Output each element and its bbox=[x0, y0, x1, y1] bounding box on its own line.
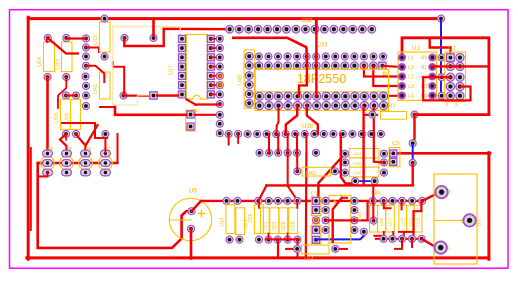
wire E-F link5 bbox=[305, 134, 307, 153]
pad rowB 7 bbox=[312, 62, 320, 70]
wire diag over U41 bbox=[86, 66, 104, 82]
resistor U23 body bbox=[270, 208, 279, 234]
pad U35 left 4 bbox=[322, 226, 329, 233]
pad rowA 5 bbox=[294, 53, 301, 60]
pad U37 pin 6 bbox=[273, 25, 281, 33]
resistor U18 body bbox=[61, 100, 71, 130]
svg-text:U20: U20 bbox=[379, 217, 384, 226]
pad U17 left pin 2 bbox=[179, 45, 186, 52]
svg-text:U23: U23 bbox=[272, 221, 278, 230]
wire H1 to right rail bbox=[432, 65, 489, 67]
pad blue1 bbox=[352, 178, 359, 185]
pad U17 right pin 6 bbox=[207, 82, 214, 89]
pad column x86 bbox=[82, 44, 89, 51]
resistor U20 body bbox=[378, 205, 386, 232]
pad U40 pin2 bbox=[245, 62, 253, 70]
pad U33 top pin 12 bbox=[360, 92, 368, 100]
capacitor C4 body bbox=[311, 225, 321, 243]
pad row201 1 bbox=[223, 197, 230, 204]
resistor U21 body bbox=[261, 208, 270, 234]
pad J3.1 bbox=[435, 241, 447, 253]
wire U17 pin 7 link bbox=[211, 93, 220, 95]
J3 pin3 silk bbox=[434, 219, 462, 221]
pad row240 6 bbox=[284, 236, 291, 243]
wire U17 pin 1 link bbox=[211, 38, 220, 40]
wire U17 pin 6 link bbox=[211, 84, 220, 86]
wire U14.2 down bbox=[46, 77, 49, 154]
pad rowB 3 bbox=[274, 62, 282, 70]
pad U2 right 1 bbox=[456, 54, 464, 62]
LED U27 outline bbox=[99, 156, 113, 170]
pad rowA 6 bbox=[303, 53, 310, 60]
connector U1 body bbox=[398, 52, 437, 100]
pad U30 bottom bbox=[62, 169, 72, 176]
svg-text:U26: U26 bbox=[248, 213, 254, 222]
pad U35 right 3 bbox=[351, 217, 358, 224]
pad U2 pin1 square bbox=[447, 54, 455, 62]
svg-text:U35: U35 bbox=[370, 191, 380, 197]
pad top net bbox=[437, 15, 444, 22]
pad net C3 top bbox=[409, 140, 416, 147]
pad row240 5 bbox=[274, 236, 281, 243]
wire blue lower bbox=[355, 180, 374, 182]
wire trio stub3 bbox=[403, 232, 405, 239]
pad J3.2 bbox=[435, 186, 447, 198]
pad U1 H3 bbox=[429, 83, 436, 90]
wire 18F2550 drop1 bbox=[299, 54, 307, 96]
pad U35 right 1 bbox=[351, 197, 358, 204]
pad bbox=[102, 130, 109, 137]
pad rowA 4 bbox=[284, 53, 291, 60]
pad U17 left pin 1 bbox=[179, 35, 186, 42]
resistor U25 body bbox=[279, 208, 288, 234]
U33 inner silk line bbox=[255, 91, 388, 93]
pad stack right 3 bbox=[380, 169, 387, 176]
wire trio stub1 bbox=[383, 232, 385, 239]
resistor U19 body bbox=[289, 208, 298, 234]
resistor U29 body bbox=[236, 208, 245, 235]
pad U37 pin 14 bbox=[349, 25, 357, 33]
wire res stub a bbox=[258, 201, 260, 208]
pad U17 right pin 7 bbox=[207, 91, 214, 98]
wire U38 funnel left bbox=[286, 106, 297, 134]
pad junction top bbox=[82, 35, 89, 42]
wire drop from top rail bbox=[152, 19, 155, 36]
wire U17 pin 4 link bbox=[211, 66, 220, 68]
wire led stub2 bbox=[104, 146, 106, 154]
pad col x219 c bbox=[216, 130, 223, 137]
pad stack right 2 bbox=[380, 159, 387, 166]
pad U14b.1 bbox=[294, 245, 301, 252]
pad C1.1 bbox=[313, 197, 320, 204]
pad header right 7 bbox=[216, 91, 223, 98]
wire U14b right bbox=[335, 248, 347, 250]
LED U30 outline bbox=[60, 156, 74, 170]
pad row201 6 bbox=[284, 197, 291, 204]
svg-text:U42: U42 bbox=[306, 171, 316, 177]
resistor U41 body bbox=[100, 72, 111, 99]
wire y104 stub bbox=[195, 103, 220, 105]
pad U2 left 3 bbox=[446, 73, 454, 81]
svg-text:U5: U5 bbox=[189, 189, 197, 195]
pad row240 3 bbox=[255, 236, 262, 243]
svg-text:U17: U17 bbox=[169, 65, 175, 75]
pad rowB 10 bbox=[341, 62, 349, 70]
wire bend bbox=[62, 123, 107, 138]
wire row E left to LED bbox=[108, 134, 118, 163]
pad rowE 6 bbox=[273, 130, 280, 137]
U5 chord line bbox=[169, 219, 191, 221]
pad row201 2 bbox=[234, 197, 241, 204]
pad U2 left 5 bbox=[446, 92, 454, 100]
pad bbox=[72, 92, 79, 99]
junction X mark bbox=[313, 217, 320, 224]
pad row201 9 bbox=[369, 197, 376, 204]
wire E-F link3 bbox=[288, 134, 298, 200]
pad header right 2 bbox=[216, 45, 223, 52]
pad rowE 15 bbox=[358, 130, 365, 137]
pad rowE 5 bbox=[263, 130, 270, 137]
pad U2 right 5 bbox=[456, 92, 464, 100]
resistor U14 body bbox=[44, 42, 55, 72]
pad U37 pin 13 bbox=[339, 25, 347, 33]
wire res stub c bbox=[287, 234, 289, 240]
pad row239 4 bbox=[408, 235, 415, 242]
pad stack left 1 bbox=[341, 150, 348, 157]
pad stack left 3 bbox=[341, 169, 348, 176]
svg-text:U23: U23 bbox=[408, 217, 413, 226]
wire E-F link4 bbox=[296, 134, 298, 153]
pad rowE 13 bbox=[339, 130, 346, 137]
connector J3 body bbox=[434, 174, 477, 264]
svg-text:24: 24 bbox=[386, 83, 391, 89]
pad rowB 12 bbox=[360, 62, 368, 70]
wire stub bbox=[38, 162, 48, 164]
wire U42.2 right bbox=[336, 171, 345, 174]
svg-text:L4: L4 bbox=[408, 94, 414, 100]
capacitor U5 outline bbox=[169, 198, 211, 240]
pad C3b bbox=[390, 158, 397, 165]
pad rowB 11 bbox=[351, 62, 359, 70]
wire U38 funnel right bbox=[307, 106, 318, 134]
pad U1 LV bbox=[399, 54, 406, 61]
svg-text:U46: U46 bbox=[353, 161, 362, 166]
wire 18F2550 drop2 bbox=[315, 20, 317, 96]
pad U33 top pin 5 bbox=[294, 92, 302, 100]
wire jog b bbox=[414, 201, 422, 239]
svg-text:C6: C6 bbox=[193, 108, 199, 113]
pad U40 pin6 bbox=[245, 99, 253, 107]
pad row201 4 bbox=[265, 197, 272, 204]
pad U37 pin 3 bbox=[245, 25, 253, 33]
pad R1.2 bbox=[411, 111, 418, 118]
wire LED middle row bus bbox=[39, 162, 118, 164]
pad row240 1 bbox=[226, 236, 233, 243]
wire led feed 2 bbox=[76, 134, 86, 154]
pad rowE 3 bbox=[244, 130, 251, 137]
pad U37 pin 5 bbox=[264, 25, 272, 33]
resistor U44 body bbox=[349, 149, 379, 158]
pad U37 pin 8 bbox=[292, 25, 300, 33]
wire x86 pads link bbox=[86, 47, 99, 49]
wire down from C3 net bbox=[412, 163, 414, 185]
pad U37 pin 2 bbox=[235, 25, 243, 33]
pad between U1 U2 b bbox=[438, 74, 445, 81]
pad U33 top pin 3 bbox=[274, 92, 282, 100]
svg-text:L1: L1 bbox=[408, 65, 414, 71]
pad U27 mid bbox=[101, 160, 111, 167]
wire y235 short bbox=[374, 235, 381, 237]
wire U17 bottom diag bbox=[187, 100, 197, 105]
pad U1 HV bbox=[429, 54, 436, 61]
wire U-frame top bbox=[402, 38, 489, 115]
pad rowB 8 bbox=[322, 62, 330, 70]
pad U14.1 bbox=[44, 34, 51, 41]
pad rowB 5 bbox=[293, 62, 301, 70]
pad U33 top pin 7 bbox=[313, 92, 321, 100]
pad U19.2 bbox=[63, 73, 70, 80]
pad C3a bbox=[390, 150, 397, 157]
wire R1 left bbox=[364, 114, 377, 116]
pad R1.1 bbox=[369, 111, 376, 118]
wire mid row y201 bbox=[201, 200, 422, 202]
wire R1 to loop bbox=[415, 113, 489, 116]
wire U17 pin 3 link bbox=[211, 56, 220, 58]
pad between U1 U2 c bbox=[438, 92, 445, 99]
wire E-F link2b bbox=[277, 134, 279, 153]
resistor U26 body bbox=[255, 205, 264, 234]
resistor U46 body bbox=[349, 158, 379, 167]
pad U2 right 2 bbox=[456, 62, 464, 70]
pad rowF 4 bbox=[284, 149, 291, 156]
resistor U18b body bbox=[226, 205, 235, 234]
pad rowA 13 bbox=[370, 53, 377, 60]
wire U2 bottom loop bbox=[423, 77, 470, 100]
pad U1 L3 bbox=[399, 83, 406, 90]
faint silk outline big box bbox=[113, 27, 181, 106]
svg-text:U19: U19 bbox=[416, 217, 421, 226]
pad rowF 3 bbox=[275, 149, 282, 156]
svg-text:U19: U19 bbox=[56, 59, 62, 69]
pad U37 pin 16 bbox=[368, 25, 376, 33]
pad U1 L4 bbox=[399, 92, 406, 99]
svg-text:U19: U19 bbox=[291, 221, 297, 230]
svg-text:LV: LV bbox=[408, 56, 414, 62]
pad U14.2 bbox=[44, 73, 51, 80]
svg-text:U18: U18 bbox=[220, 217, 226, 226]
connector U2 body bbox=[445, 52, 466, 102]
pad U17 right pin 5 bbox=[207, 72, 214, 79]
pad C4.2 bbox=[313, 236, 320, 243]
svg-text:U44: U44 bbox=[353, 152, 362, 157]
pad row239 2 bbox=[389, 235, 396, 242]
pad U17 right pin 1 bbox=[207, 35, 214, 42]
svg-text:18F2550: 18F2550 bbox=[297, 72, 346, 86]
svg-text:2: 2 bbox=[449, 190, 452, 196]
pad header right 6 bbox=[216, 82, 223, 89]
svg-text:U3: U3 bbox=[477, 219, 483, 226]
pad U33 bottom pin 12 bbox=[360, 102, 368, 110]
pad C6.2 bbox=[187, 123, 194, 130]
wire U42 left bbox=[296, 153, 298, 171]
wire diag into row201 bbox=[259, 185, 267, 200]
pad row240 4 bbox=[265, 236, 272, 243]
pad row mid bbox=[62, 92, 69, 99]
wire U2 pin1 feed bbox=[430, 38, 451, 55]
wire led feed diag bbox=[86, 125, 98, 145]
pad U37 pin 10 bbox=[311, 25, 319, 33]
capacitor C6 body bbox=[186, 110, 196, 131]
pad U18.2 bbox=[62, 130, 69, 137]
resistor U19 body bbox=[62, 42, 73, 72]
pad U17 left pin 5 bbox=[179, 72, 186, 79]
svg-text:U27: U27 bbox=[388, 217, 393, 226]
wire diag stack to C1 bbox=[317, 154, 345, 201]
LED U28 outline bbox=[79, 156, 93, 170]
pad rowA 11 bbox=[351, 53, 358, 60]
svg-text:U16: U16 bbox=[65, 113, 71, 123]
pad between U1 U2 a bbox=[438, 54, 445, 61]
resistor U48 body bbox=[349, 167, 379, 177]
resistor U19 body bbox=[414, 205, 422, 232]
pad rowB 6 bbox=[303, 62, 311, 70]
wire big vertical x363 bbox=[362, 107, 364, 185]
pad rowA 10 bbox=[341, 53, 348, 60]
wire U19.1 to pad bbox=[66, 37, 86, 39]
wire U19.2 down bbox=[58, 77, 66, 108]
pad rowB 4 bbox=[284, 62, 292, 70]
pad x86 row66 bbox=[82, 62, 89, 69]
svg-text:U2: U2 bbox=[448, 46, 456, 52]
wire jog c bbox=[399, 231, 414, 233]
pad U37 pin 15 bbox=[358, 25, 366, 33]
pad rowB 13 bbox=[370, 62, 378, 70]
wire stub down a bbox=[395, 239, 402, 249]
pad U33 top pin 2 bbox=[265, 92, 273, 100]
svg-text:U48: U48 bbox=[353, 171, 362, 176]
svg-text:H1: H1 bbox=[421, 65, 428, 71]
pad U35 right 4 bbox=[351, 226, 358, 233]
svg-text:U33: U33 bbox=[316, 43, 328, 49]
pad U1 H1 bbox=[429, 64, 436, 71]
pad rowA 12 bbox=[360, 53, 367, 60]
pad header right 1 bbox=[216, 35, 223, 42]
pad U33 top pin 11 bbox=[351, 92, 359, 100]
resistor U16 body bbox=[71, 100, 81, 130]
wire trio stub2 bbox=[392, 232, 394, 239]
faint silk outline top bbox=[113, 27, 181, 41]
pad U27 top bbox=[101, 150, 111, 157]
resistor R1 body bbox=[381, 112, 407, 120]
wire right rail bbox=[487, 153, 490, 260]
wire jog a bbox=[384, 201, 391, 208]
pad rowF 2 bbox=[265, 149, 272, 156]
wire led stub bbox=[39, 173, 48, 177]
pad row240 2 bbox=[236, 236, 243, 243]
wire blue bottom bbox=[316, 232, 364, 239]
pad U33 top pin 8 bbox=[322, 92, 330, 100]
resistor U23 body bbox=[407, 205, 415, 232]
pad rowE 8 bbox=[292, 130, 299, 137]
pad U33 top pin 10 bbox=[341, 92, 349, 100]
pad center junction bbox=[312, 217, 319, 224]
svg-text:U14: U14 bbox=[304, 257, 313, 263]
junction X on U17 pin6 bbox=[217, 82, 224, 89]
pad bbox=[82, 102, 89, 109]
pad row201 8 bbox=[322, 197, 329, 204]
pad U28 top bbox=[81, 150, 91, 157]
pad U1 H2 bbox=[429, 73, 436, 80]
connector U40 body bbox=[244, 50, 254, 109]
wire led feed 3 bbox=[104, 134, 106, 154]
pad C4.1 bbox=[313, 227, 320, 234]
wire U17 pin 2 link bbox=[211, 47, 220, 49]
pad U15.2 bbox=[101, 53, 108, 60]
wire corner bbox=[100, 106, 115, 108]
U5 plus sign bbox=[198, 210, 206, 218]
wire U5 diag to row bbox=[192, 201, 202, 211]
pad U5.2 bbox=[187, 225, 194, 232]
wire second left rail bbox=[30, 148, 32, 230]
pad U33 bottom pin 11 bbox=[351, 102, 359, 110]
pad row201 13 bbox=[409, 197, 416, 204]
pad U35 left 1 bbox=[322, 197, 329, 204]
pad rowA 1 bbox=[255, 53, 262, 60]
wire to U15 bottom bbox=[98, 48, 100, 53]
pad U29 bottom bbox=[43, 169, 53, 176]
pad U33 bottom pin 14 bbox=[379, 102, 387, 110]
pad U29 top bbox=[43, 150, 53, 157]
pad U33 bottom pin 7 bbox=[313, 102, 321, 110]
pad U37 pin 7 bbox=[283, 25, 291, 33]
pad U36 left bbox=[370, 217, 377, 224]
pad rowE 10 bbox=[311, 130, 318, 137]
pad U17 left pin 7 bbox=[179, 91, 186, 98]
pad U17 left pin 3 bbox=[179, 54, 186, 61]
wire rowB to L2 bbox=[364, 66, 402, 77]
pad U28 bottom bbox=[81, 169, 91, 176]
svg-text:U37: U37 bbox=[301, 19, 313, 25]
pad U33 bottom pin 9 bbox=[332, 102, 340, 110]
pad rowE 17 bbox=[377, 130, 384, 137]
pad rowF 5 bbox=[293, 149, 300, 156]
pad U37 pin 11 bbox=[321, 25, 329, 33]
pad row239 5 bbox=[418, 235, 425, 242]
wire inner left rail bbox=[38, 163, 192, 248]
pad U33 bottom pin 13 bbox=[370, 102, 378, 110]
resistor U21 body bbox=[370, 205, 378, 232]
pad blue2 bbox=[371, 178, 378, 185]
wire U35 mid bbox=[326, 219, 368, 221]
wire C3 to right rail bbox=[394, 152, 490, 155]
wire left rail bbox=[27, 17, 30, 259]
wire res stub b bbox=[296, 201, 298, 208]
wire drop x367 bbox=[367, 201, 369, 221]
resistor U42 body bbox=[302, 167, 331, 176]
svg-text:U18: U18 bbox=[54, 113, 60, 123]
pad rowA 14 bbox=[380, 53, 387, 60]
wire mid-left rail bbox=[115, 107, 186, 115]
pad rowE 4 bbox=[254, 130, 261, 137]
pad U29 mid bbox=[43, 160, 53, 167]
wire row240 link bbox=[266, 238, 299, 240]
pad U17 right pin 2 bbox=[207, 45, 214, 52]
pad U37 pin 1 bbox=[226, 25, 234, 33]
pad left of U17 bbox=[150, 92, 157, 99]
wire right of C6 bbox=[195, 114, 220, 116]
wire R1 down bbox=[413, 115, 415, 141]
pad bbox=[82, 92, 89, 99]
